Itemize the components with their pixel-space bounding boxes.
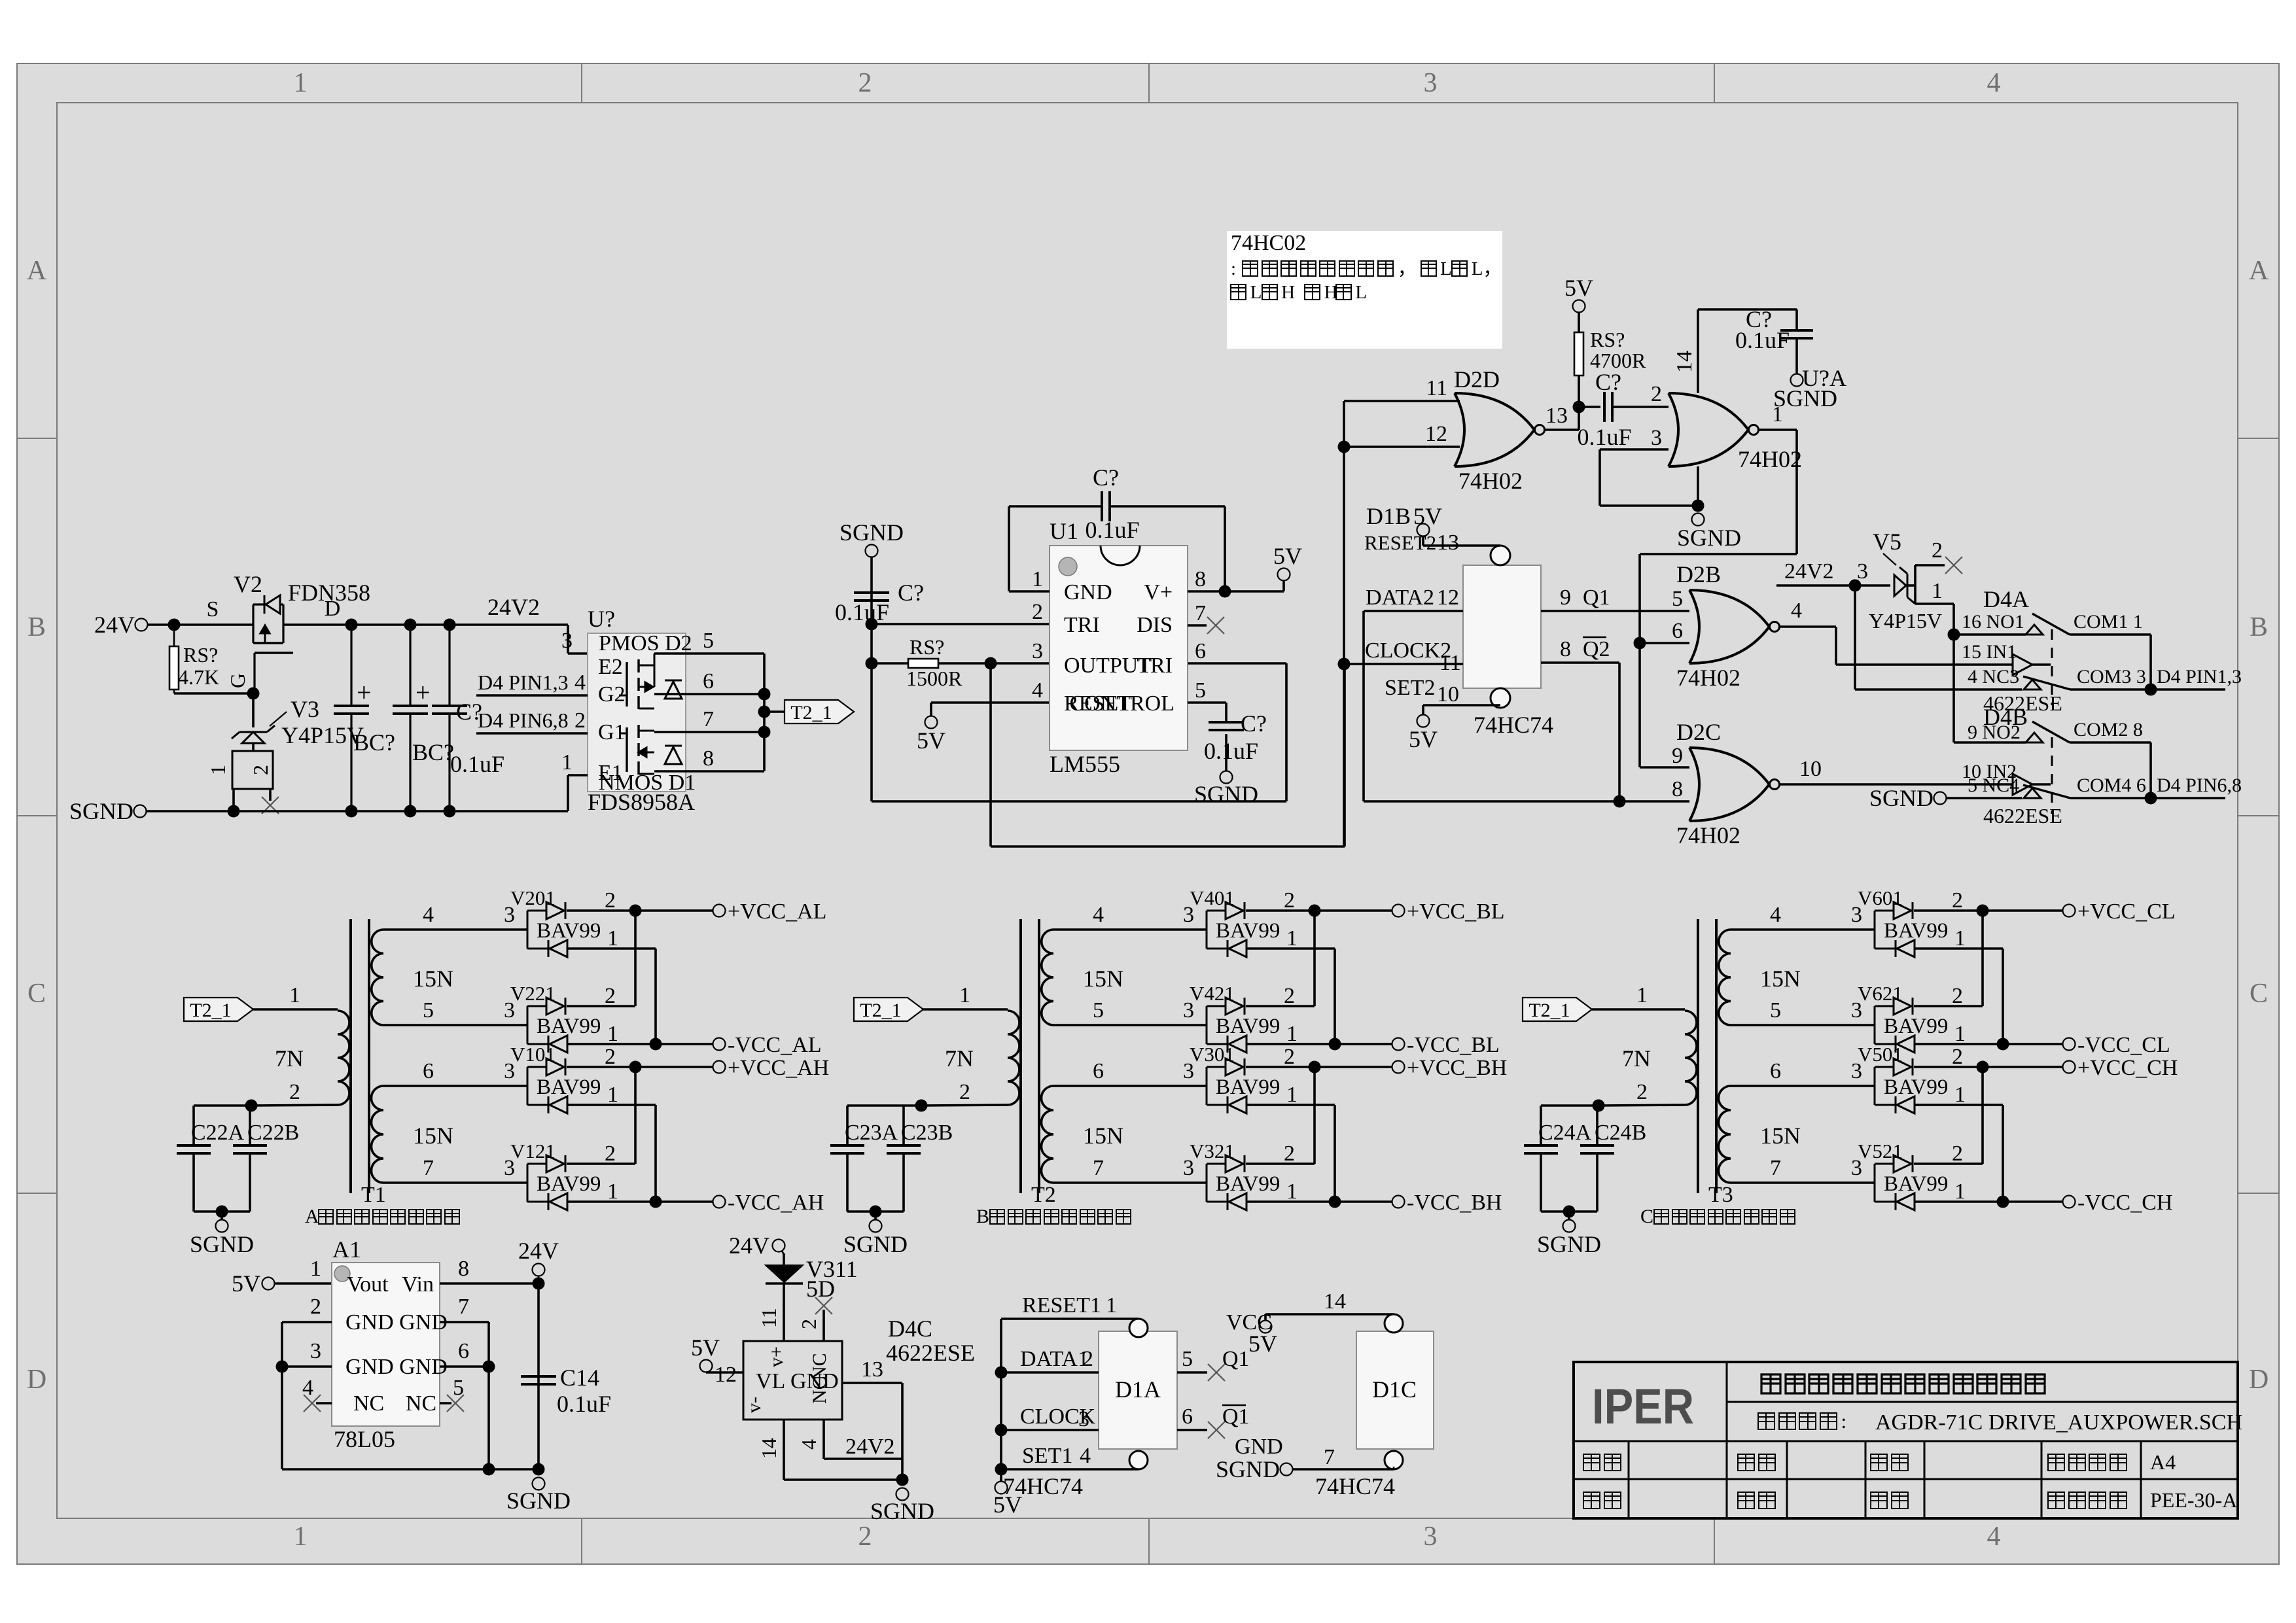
wire cap1 bottom lead bbox=[350, 714, 352, 811]
svg-text:NC: NC bbox=[809, 1353, 830, 1380]
svg-text:6: 6 bbox=[703, 669, 714, 693]
capacitor C23A bottom lead bbox=[846, 1153, 849, 1212]
wire link pin2s bbox=[1981, 911, 1984, 1006]
port bbox=[713, 1061, 726, 1073]
svg-text:+VCC_AH: +VCC_AH bbox=[728, 1056, 829, 1080]
svg-text:2: 2 bbox=[858, 68, 872, 98]
wire pin5 stub bbox=[440, 1402, 451, 1405]
label 审核 (CJK) bbox=[1738, 1492, 1775, 1509]
capacitor C? bbox=[432, 706, 467, 714]
svg-text:RESET2: RESET2 bbox=[1364, 531, 1436, 554]
svg-text:TRI: TRI bbox=[1137, 654, 1173, 678]
junction -VCC L bbox=[1997, 1038, 2009, 1051]
svg-text:15N: 15N bbox=[413, 966, 453, 992]
svg-text:-VCC_AL: -VCC_AL bbox=[728, 1033, 822, 1057]
dual diode V521 BAV99 bbox=[1874, 1164, 1876, 1202]
svg-text:，: ， bbox=[1398, 258, 1417, 279]
svg-text:0.1uF: 0.1uF bbox=[450, 751, 504, 777]
zone divider bbox=[17, 1193, 57, 1194]
svg-text:24V2: 24V2 bbox=[487, 594, 540, 620]
capacitor C24A bottom lead bbox=[1540, 1153, 1542, 1212]
wire box pin2 stub bbox=[269, 789, 272, 801]
wire output 4 bbox=[1779, 625, 1836, 628]
D1 body diode bbox=[665, 746, 682, 764]
wire pin6 bbox=[440, 1365, 489, 1368]
wire cap3 top lead bbox=[448, 625, 450, 706]
V311 cathode bar bbox=[766, 1282, 803, 1284]
transformer T3 primary winding 7N bbox=[1685, 1011, 1697, 1105]
svg-text:2: 2 bbox=[605, 1142, 616, 1166]
svg-text:15N: 15N bbox=[1760, 966, 1801, 992]
capacitor C22A bbox=[177, 1145, 211, 1153]
svg-text:9 NO2: 9 NO2 bbox=[1968, 722, 2021, 743]
svg-text:C?: C? bbox=[1093, 464, 1119, 491]
svg-text:V401: V401 bbox=[1190, 886, 1235, 909]
port bbox=[1417, 715, 1430, 727]
svg-text:4: 4 bbox=[1770, 903, 1781, 927]
svg-text:8: 8 bbox=[703, 746, 714, 771]
wire box pin1 to SGND bus bbox=[232, 789, 235, 811]
svg-text:2: 2 bbox=[1284, 888, 1295, 913]
svg-text:4: 4 bbox=[423, 903, 434, 927]
svg-text:C22A: C22A bbox=[191, 1121, 245, 1145]
wire COM1 bbox=[2070, 633, 2151, 636]
svg-text:Y4P15V: Y4P15V bbox=[1869, 609, 1942, 633]
svg-text:1: 1 bbox=[607, 1179, 618, 1204]
svg-text:-VCC_CH: -VCC_CH bbox=[2077, 1191, 2172, 1215]
wire to SGND bbox=[874, 1212, 877, 1219]
svg-text:B: B bbox=[27, 612, 46, 642]
T3 secondary winding 15N (lower) bbox=[1719, 1086, 1731, 1183]
dual diode V121 BAV99 bbox=[527, 1164, 529, 1202]
svg-text:5: 5 bbox=[423, 998, 434, 1022]
svg-text:15N: 15N bbox=[1083, 1123, 1123, 1149]
wire 5V bus D1A bbox=[1000, 1319, 1002, 1481]
contact NO2 bbox=[2026, 733, 2043, 742]
wire 24V to C14 bbox=[537, 1283, 540, 1469]
svg-text:C23B: C23B bbox=[901, 1121, 953, 1145]
wire D4 PIN1,3 to G2 bbox=[476, 694, 588, 697]
capacitor C? 0.1uF (pin14) bbox=[1780, 330, 1813, 338]
NOR gate D2C bbox=[1689, 748, 1769, 821]
wire to caps bbox=[847, 1104, 921, 1107]
wire 5V stub bbox=[1422, 705, 1424, 714]
svg-text:1: 1 bbox=[1286, 926, 1298, 951]
D1C GND bubble bbox=[1385, 1451, 1403, 1469]
svg-text:7: 7 bbox=[703, 707, 714, 731]
IC D1A 74HC74 body bbox=[1099, 1331, 1177, 1449]
wire V_01 pin1 lower bbox=[1246, 1104, 1335, 1106]
svg-text:74H02: 74H02 bbox=[1458, 468, 1523, 494]
svg-text:24V2: 24V2 bbox=[845, 1435, 895, 1459]
svg-text:5V: 5V bbox=[917, 727, 945, 754]
None bbox=[1894, 1058, 1911, 1075]
no-connect X bbox=[304, 1395, 321, 1412]
svg-text:SGND: SGND bbox=[69, 798, 133, 824]
capacitor C22A top lead bbox=[192, 1106, 195, 1145]
svg-text:1: 1 bbox=[607, 926, 618, 951]
wire pin11 bbox=[1344, 400, 1460, 402]
svg-text:12: 12 bbox=[715, 1363, 737, 1387]
svg-text:0.1uF: 0.1uF bbox=[835, 599, 889, 625]
svg-text:SGND: SGND bbox=[870, 1498, 934, 1524]
svg-text:0.1uF: 0.1uF bbox=[1204, 738, 1258, 764]
capacitor C24A bbox=[1524, 1145, 1558, 1153]
svg-text:BAV99: BAV99 bbox=[1216, 919, 1280, 943]
port bbox=[866, 545, 878, 557]
junction NO1 bbox=[1948, 629, 1960, 641]
svg-text:BAV99: BAV99 bbox=[1216, 1075, 1280, 1099]
svg-text:A: A bbox=[305, 1206, 319, 1227]
dual diode V601 BAV99 bbox=[1874, 911, 1876, 949]
wire 24V2 bbox=[1776, 584, 1890, 587]
svg-text:+VCC_BL: +VCC_BL bbox=[1407, 899, 1505, 924]
junction pin6 D2B bbox=[1634, 637, 1646, 650]
junction bbox=[758, 706, 771, 718]
junction COM3 bbox=[2145, 684, 2157, 696]
svg-text:2: 2 bbox=[289, 1080, 300, 1104]
svg-text:3: 3 bbox=[1078, 1407, 1089, 1431]
None bbox=[546, 998, 564, 1015]
dual diode V621 BAV99 bbox=[1874, 1006, 1876, 1044]
svg-text:4: 4 bbox=[1032, 678, 1043, 703]
svg-text:T2: T2 bbox=[1031, 1183, 1056, 1207]
svg-text:C: C bbox=[27, 979, 46, 1009]
svg-text:Vout: Vout bbox=[347, 1272, 389, 1297]
svg-text:7: 7 bbox=[1324, 1445, 1335, 1469]
svg-text:5V: 5V bbox=[1413, 503, 1442, 529]
svg-text:4.7K: 4.7K bbox=[178, 665, 219, 689]
None bbox=[1227, 940, 1229, 957]
None bbox=[1895, 1096, 1897, 1113]
D2 body diode bbox=[665, 680, 682, 699]
wire SGND to C? bbox=[870, 557, 873, 706]
separator dashed link D4A bbox=[2051, 629, 2053, 705]
A1 pin-1 marker bbox=[334, 1266, 350, 1282]
svg-text:2: 2 bbox=[605, 984, 616, 1008]
dual diode V421 BAV99 bbox=[1206, 1006, 1208, 1044]
svg-text:SGND: SGND bbox=[1869, 785, 1934, 811]
wire RS? bottom lead bbox=[173, 689, 175, 693]
svg-text:A: A bbox=[2249, 256, 2269, 286]
label 制图 (CJK) bbox=[1738, 1454, 1775, 1471]
svg-text:24V2: 24V2 bbox=[1784, 559, 1834, 584]
svg-text:8: 8 bbox=[458, 1257, 469, 1281]
wire cap2 bottom lead bbox=[409, 714, 411, 811]
svg-text:1: 1 bbox=[1032, 567, 1043, 591]
wire C? to pin2 bbox=[1612, 406, 1669, 408]
svg-text:6: 6 bbox=[1182, 1405, 1193, 1429]
wire 5V to RS? bbox=[1578, 313, 1580, 332]
svg-text:14: 14 bbox=[1672, 351, 1697, 373]
svg-text:SGND: SGND bbox=[843, 1231, 908, 1257]
svg-text:S: S bbox=[207, 597, 219, 621]
svg-text:BAV99: BAV99 bbox=[1216, 1172, 1280, 1196]
D1C VCC bubble bbox=[1385, 1314, 1403, 1333]
svg-text:1: 1 bbox=[310, 1257, 321, 1281]
wire primary pin2 bbox=[921, 1105, 1008, 1106]
relay coil input bbox=[2013, 654, 2032, 675]
wire link pin2s lower bbox=[1313, 1067, 1316, 1164]
wire RS? to OUTPUT pin3 bbox=[938, 662, 1050, 665]
svg-text:0.1uF: 0.1uF bbox=[557, 1391, 611, 1417]
wire 5V to Vout bbox=[275, 1282, 332, 1285]
svg-text:3: 3 bbox=[1857, 559, 1868, 584]
svg-text:15 IN1: 15 IN1 bbox=[1962, 641, 2017, 663]
wire down to IN1 bbox=[1835, 627, 1837, 665]
wire link pin1s lower bbox=[1333, 1105, 1336, 1202]
svg-text:2: 2 bbox=[605, 1045, 616, 1069]
svg-text:V201: V201 bbox=[510, 886, 556, 909]
svg-text:BAV99: BAV99 bbox=[537, 1075, 601, 1099]
svg-text:TRI: TRI bbox=[1064, 613, 1100, 637]
transistor D1 (NMOS) symbol bbox=[637, 725, 639, 775]
wire secondary pin 7 bbox=[1053, 1181, 1207, 1184]
svg-text:A: A bbox=[27, 256, 47, 286]
junction pin7/pin3 bbox=[1692, 500, 1704, 512]
wire E1 out bbox=[568, 774, 588, 777]
port bbox=[713, 905, 726, 917]
wire pin5 bbox=[654, 652, 764, 655]
svg-text:8: 8 bbox=[1672, 777, 1683, 801]
junction cap bottom bbox=[404, 805, 417, 818]
wire pin3 bottom bbox=[1600, 504, 1698, 507]
svg-text:2: 2 bbox=[858, 1522, 872, 1552]
no-connect X bbox=[262, 797, 279, 814]
transistor V2 FDN358 (P-MOSFET) bbox=[252, 604, 254, 643]
resistor RS? 4700R body bbox=[1574, 332, 1583, 375]
capacitor C23A bbox=[830, 1145, 864, 1153]
svg-text:2: 2 bbox=[605, 888, 616, 913]
svg-text:1: 1 bbox=[561, 750, 573, 775]
capacitor C23A top lead bbox=[846, 1106, 849, 1145]
svg-text:15N: 15N bbox=[1760, 1123, 1801, 1149]
wire to D2C pin8 bbox=[1619, 800, 1689, 803]
port bbox=[2063, 1196, 2075, 1208]
svg-text:1500R: 1500R bbox=[906, 667, 963, 690]
wire secondary pin 4 bbox=[1731, 928, 1875, 931]
svg-text:7: 7 bbox=[423, 1156, 434, 1180]
wire +VCC_BL bbox=[1246, 909, 1392, 912]
V5 pointer stroke bbox=[1883, 553, 1896, 565]
wire pin2 bbox=[282, 1321, 332, 1323]
capacitor C23B bottom lead bbox=[902, 1153, 905, 1212]
svg-text:24V: 24V bbox=[729, 1232, 769, 1259]
wire 5V stub bbox=[930, 703, 932, 716]
svg-text:4: 4 bbox=[797, 1439, 821, 1450]
port bbox=[2063, 1061, 2075, 1073]
svg-text:2: 2 bbox=[959, 1080, 970, 1104]
junction -VCC H bbox=[1329, 1196, 1341, 1208]
svg-text:74HC74: 74HC74 bbox=[1003, 1473, 1083, 1499]
svg-text:RS?: RS? bbox=[910, 635, 944, 659]
svg-text:4: 4 bbox=[1093, 903, 1104, 927]
svg-text:4622ESE: 4622ESE bbox=[886, 1340, 975, 1366]
svg-text:4622ESE: 4622ESE bbox=[1983, 804, 2062, 828]
junction cap top bbox=[404, 619, 417, 631]
svg-text:BAV99: BAV99 bbox=[537, 1172, 601, 1196]
wire -VCC_AH bbox=[567, 1200, 713, 1203]
svg-text:2: 2 bbox=[1284, 1045, 1295, 1069]
svg-text:FDS8958A: FDS8958A bbox=[588, 789, 695, 815]
zone divider bbox=[17, 815, 57, 816]
wire -VCC_CH bbox=[1914, 1200, 2063, 1203]
wire down left bbox=[870, 706, 873, 801]
wire to D2C pin9 bbox=[1640, 766, 1689, 769]
wire 24V stub bbox=[782, 1251, 784, 1255]
label 项目 (CJK) bbox=[1583, 1454, 1621, 1471]
svg-text:3: 3 bbox=[1032, 639, 1043, 663]
wire secondary pin 5 bbox=[383, 1024, 527, 1026]
wire clock bus vertical bbox=[1343, 401, 1345, 846]
wire into pin 3 bbox=[568, 652, 588, 655]
wire SET1 bbox=[1001, 1468, 1139, 1471]
None bbox=[546, 1058, 564, 1075]
svg-text:GND: GND bbox=[1064, 580, 1112, 604]
svg-text::: : bbox=[1231, 258, 1236, 279]
switch arm D4A bbox=[2032, 614, 2070, 635]
junction gnd bus bbox=[483, 1463, 495, 1476]
wire +VCC_CL bbox=[1914, 909, 2063, 912]
capacitor C22A bottom lead bbox=[192, 1153, 195, 1212]
svg-text:15N: 15N bbox=[1083, 966, 1123, 992]
junction bbox=[758, 726, 771, 739]
wire +VCC_AL bbox=[567, 909, 713, 912]
wire D4 PIN6,8 to G1 bbox=[476, 732, 588, 735]
svg-text:Q1: Q1 bbox=[1222, 1405, 1250, 1429]
svg-text::: : bbox=[1841, 1410, 1846, 1433]
svg-text:D4 PIN6,8: D4 PIN6,8 bbox=[478, 708, 569, 732]
wire Vin pin8 bbox=[440, 1282, 539, 1285]
svg-text:T2_1: T2_1 bbox=[790, 702, 832, 724]
dual diode V221 BAV99 bbox=[527, 1006, 529, 1044]
svg-text:Q2: Q2 bbox=[1583, 637, 1610, 661]
svg-text:7N: 7N bbox=[275, 1045, 304, 1072]
port bbox=[1563, 1220, 1576, 1232]
wire IN1 bbox=[1836, 663, 2013, 666]
title block outline bbox=[1574, 1362, 2238, 1518]
svg-text:2: 2 bbox=[249, 765, 272, 775]
wire V3 to switch box bbox=[252, 743, 255, 751]
wire 24V stub bbox=[538, 1276, 540, 1283]
svg-text:+: + bbox=[357, 678, 372, 707]
wire V_01 pin1 bbox=[1914, 947, 2003, 950]
junction pin2 bbox=[866, 618, 878, 631]
svg-text:10: 10 bbox=[1799, 757, 1822, 781]
wire link pin2s lower bbox=[634, 1067, 637, 1164]
wire CLOCK2 bbox=[1345, 663, 1463, 665]
port bbox=[1392, 1196, 1405, 1208]
svg-text:V621: V621 bbox=[1858, 982, 1903, 1005]
svg-text:5V: 5V bbox=[1409, 726, 1438, 752]
wire pin14 top bbox=[1698, 308, 1797, 311]
port bbox=[870, 1220, 882, 1232]
IC U? FDS8958A body bbox=[588, 633, 686, 792]
svg-text:8: 8 bbox=[1195, 567, 1206, 591]
wire left gnd loop bbox=[281, 1322, 283, 1469]
svg-text:11: 11 bbox=[1439, 651, 1461, 675]
svg-text:74HC74: 74HC74 bbox=[1315, 1473, 1395, 1499]
svg-text:V301: V301 bbox=[1190, 1043, 1235, 1066]
port bbox=[713, 1196, 726, 1208]
wire bottom link 2-6 bbox=[872, 800, 1286, 803]
svg-text:11: 11 bbox=[1426, 376, 1447, 400]
junction 24V bbox=[533, 1278, 545, 1290]
svg-text:D: D bbox=[27, 1365, 46, 1395]
wire output 10 / IN2 bbox=[1779, 783, 2013, 786]
junction cap top bbox=[444, 619, 456, 631]
svg-text:2: 2 bbox=[1952, 888, 1963, 913]
wire pin1 down to NO1/NO2 bbox=[1952, 604, 1955, 742]
junction SGND tap bbox=[216, 1206, 228, 1218]
wire D to 24V2 bbox=[283, 623, 450, 626]
junction cap top bbox=[345, 619, 358, 631]
svg-text:3: 3 bbox=[1424, 68, 1438, 98]
wire COM3 / D4 PIN1,3 bbox=[2070, 688, 2225, 691]
svg-text:6: 6 bbox=[1195, 639, 1206, 663]
port bbox=[1278, 568, 1290, 581]
wire V_21 pin2 lower bbox=[1246, 1162, 1315, 1165]
wire link pin1s bbox=[654, 949, 657, 1044]
svg-text:2: 2 bbox=[1636, 1080, 1648, 1104]
junction pin1/SGND bus bbox=[228, 805, 240, 818]
wire pin4 stub bbox=[316, 1402, 332, 1405]
svg-text:5D: 5D bbox=[806, 1276, 835, 1302]
svg-text:T1: T1 bbox=[361, 1183, 386, 1207]
svg-text:SET1: SET1 bbox=[1022, 1444, 1072, 1468]
svg-text:2: 2 bbox=[1952, 984, 1963, 1008]
None bbox=[1894, 902, 1911, 919]
wire 5V stub bbox=[1422, 536, 1424, 546]
wire to SGND bbox=[221, 1212, 223, 1219]
wire down to V+ bbox=[1224, 506, 1226, 591]
wire link pin1s bbox=[1333, 949, 1336, 1044]
wire 24V to V2 source bbox=[148, 623, 253, 626]
net label T2_1 (primary) bbox=[1523, 998, 1592, 1021]
svg-text:3: 3 bbox=[310, 1339, 321, 1363]
svg-text:SGND: SGND bbox=[1677, 525, 1741, 551]
wire cap2 top lead bbox=[409, 625, 411, 706]
wire CLOCK bbox=[1001, 1429, 1099, 1431]
svg-text:7: 7 bbox=[1770, 1156, 1781, 1180]
junction pin6 bbox=[483, 1361, 495, 1373]
svg-text:Q1: Q1 bbox=[1583, 585, 1610, 610]
wire pin14 down bbox=[783, 1420, 785, 1480]
overline of Q1 bbox=[1222, 1405, 1246, 1406]
D1A preset bubble bbox=[1129, 1319, 1148, 1337]
svg-text:9: 9 bbox=[1560, 585, 1571, 610]
junction -VCC H bbox=[650, 1196, 662, 1208]
svg-text:5V: 5V bbox=[1564, 275, 1593, 301]
svg-text:VL: VL bbox=[756, 1369, 785, 1393]
svg-text:13: 13 bbox=[861, 1357, 883, 1382]
wire secondary pin 6 bbox=[383, 1085, 527, 1087]
junction pin2/caps bbox=[1593, 1100, 1605, 1112]
svg-text:1: 1 bbox=[607, 1022, 618, 1046]
junction 24V/RS? bbox=[168, 619, 181, 631]
svg-text:D2D: D2D bbox=[1454, 366, 1500, 393]
port bbox=[2063, 1038, 2075, 1051]
svg-text:COM1 1: COM1 1 bbox=[2074, 611, 2143, 633]
wire V_21 pin2 bbox=[1914, 1005, 1983, 1007]
svg-text:V521: V521 bbox=[1858, 1140, 1903, 1162]
svg-text:LM555: LM555 bbox=[1050, 751, 1120, 777]
wire bottom gnd bus bbox=[282, 1468, 539, 1471]
wire RS? top lead bbox=[173, 625, 175, 646]
junction pin3 bbox=[985, 657, 997, 670]
port bbox=[134, 805, 147, 818]
svg-text:GND GND: GND GND bbox=[345, 1310, 448, 1335]
